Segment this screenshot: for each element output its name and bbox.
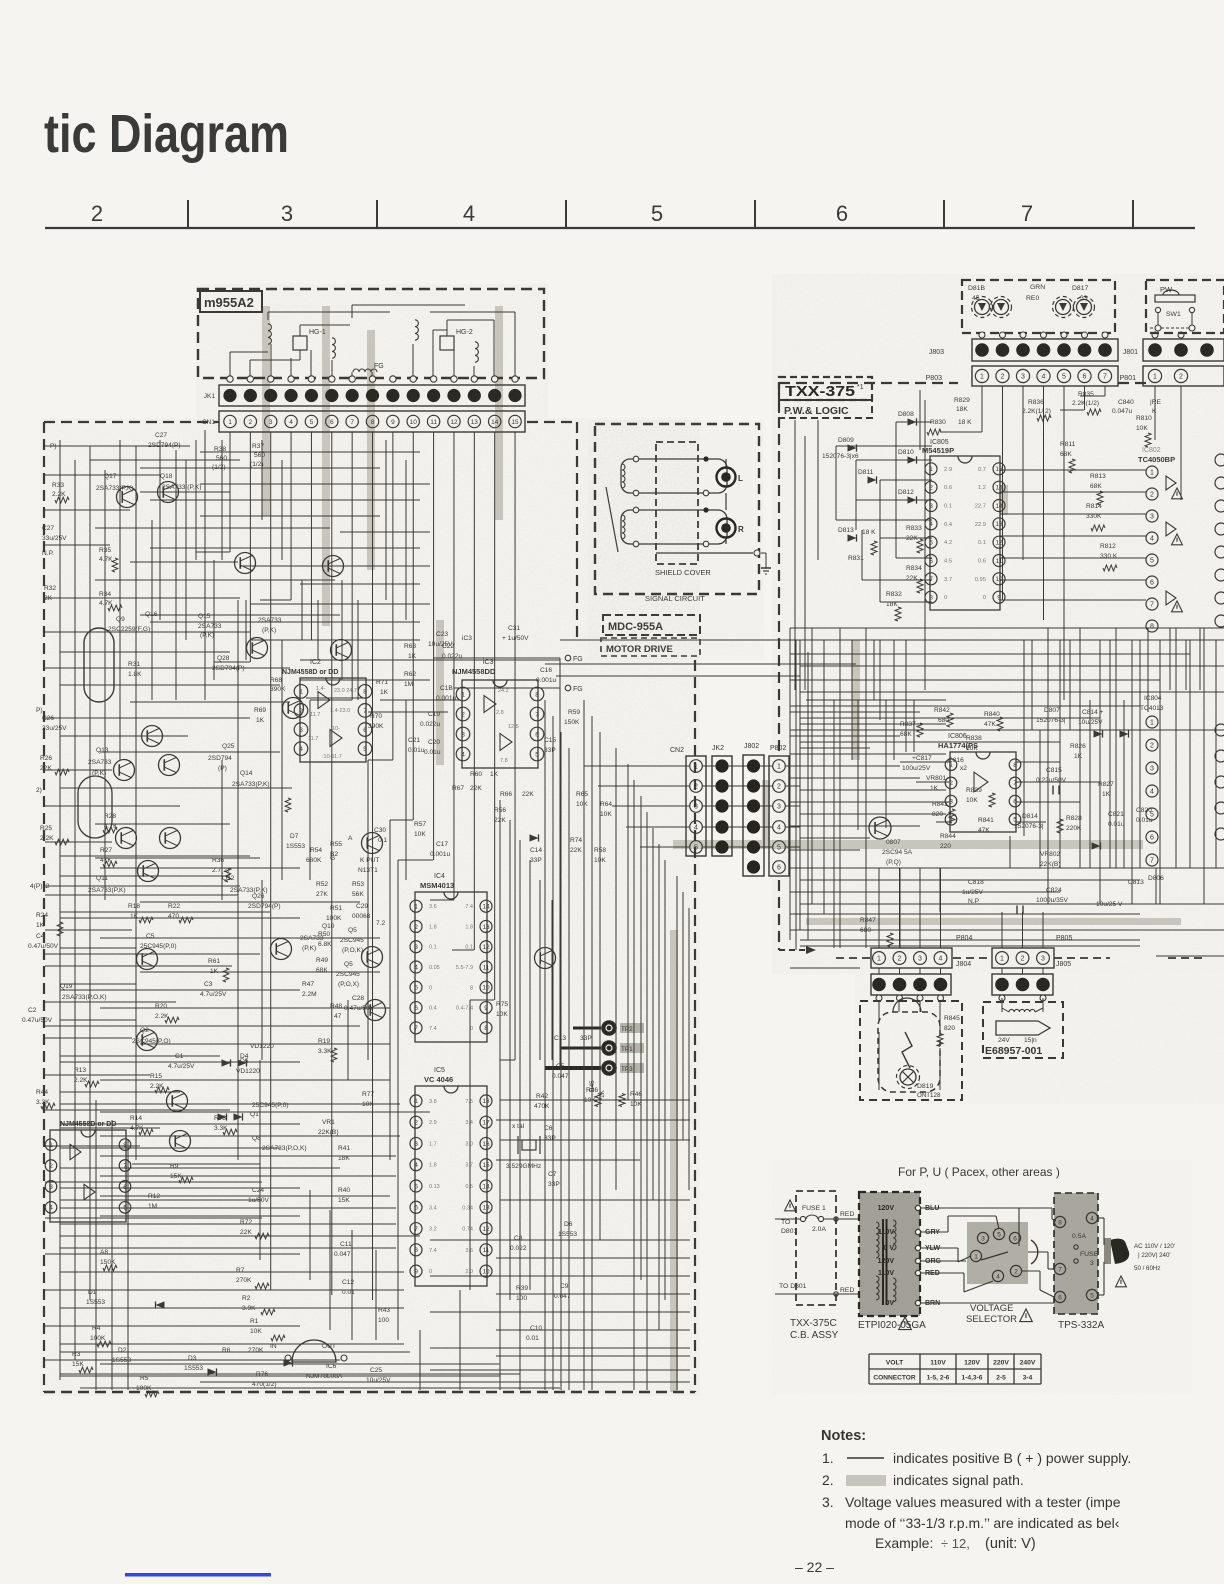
svg-text:tic Diagram: tic Diagram <box>44 104 289 164</box>
svg-text:1.: 1. <box>822 1450 834 1466</box>
svg-text:indicates positive B ( + ) pow: indicates positive B ( + ) power supply. <box>893 1450 1131 1466</box>
svg-text:7: 7 <box>1021 201 1033 226</box>
svg-text:indicates signal path.: indicates signal path. <box>893 1472 1024 1488</box>
svg-text:Notes:: Notes: <box>821 1428 866 1444</box>
svg-text:÷ 12,: ÷ 12, <box>941 1536 970 1551</box>
svg-text:3: 3 <box>281 201 293 226</box>
svg-text:2.: 2. <box>822 1472 834 1488</box>
svg-text:JK2: JK2 <box>712 745 724 752</box>
svg-text:6: 6 <box>836 201 848 226</box>
svg-text:5: 5 <box>651 201 663 226</box>
svg-text:Example:: Example: <box>875 1535 933 1551</box>
svg-text:– 22 –: – 22 – <box>795 1559 834 1575</box>
svg-text:3.: 3. <box>822 1494 834 1510</box>
svg-text:Voltage values measured with a: Voltage values measured with a tester (i… <box>845 1494 1121 1510</box>
svg-text:J802: J802 <box>744 743 759 750</box>
svg-text:mode of ‘‘33-1/3 r.p.m.’’ are: mode of ‘‘33-1/3 r.p.m.’’ are indicated … <box>845 1515 1120 1531</box>
svg-text:(unit: V): (unit: V) <box>985 1536 1036 1552</box>
svg-text:2: 2 <box>91 201 103 226</box>
svg-text:4: 4 <box>463 201 475 226</box>
svg-text:C2: C2 <box>28 1007 37 1014</box>
